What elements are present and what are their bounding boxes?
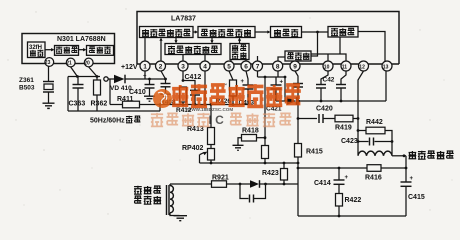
svg-text:B503: B503 [19, 85, 35, 92]
wire R416 right [381, 167, 406, 169]
wire line A [200, 162, 299, 164]
capacitor C363 [69, 77, 86, 112]
svg-text:+: + [241, 79, 245, 85]
svg-text:C420: C420 [316, 106, 333, 113]
svg-text:7: 7 [256, 64, 260, 71]
resistor R418 [238, 128, 265, 146]
capacitor C415 [401, 176, 425, 216]
wire C421 to diode [276, 100, 287, 102]
block: field output [328, 27, 358, 38]
node [405, 167, 408, 170]
diode pump [287, 97, 297, 105]
node [283, 162, 286, 165]
wire node to C412 [183, 81, 195, 91]
block: 32fH oscillator [28, 42, 46, 58]
wire pin2 up with arrow [159, 38, 162, 62]
wire pin6 down [246, 71, 248, 85]
wire pin6 up [245, 60, 247, 62]
wire pin7 stub up [257, 56, 259, 61]
wire pin4 up [204, 55, 206, 62]
svg-text:4: 4 [203, 64, 207, 71]
svg-text:9: 9 [293, 64, 297, 71]
block: field trigger input [140, 27, 194, 38]
damper diode [250, 180, 260, 188]
node [148, 78, 151, 81]
wire node down to pump [311, 32, 318, 56]
wire pin23 down [48, 66, 50, 81]
wire down to bottom rail [297, 163, 299, 216]
+12V terminal [104, 64, 138, 81]
wire pin8 up [278, 57, 285, 61]
wire C420 to R419 [323, 118, 335, 120]
block: field divider [87, 46, 114, 56]
svg-text:+12V: +12V [121, 64, 138, 71]
arrow counter to divider [79, 48, 87, 51]
resistor R921 [212, 175, 229, 188]
capacitor C422 [316, 71, 335, 101]
svg-text:C415: C415 [408, 194, 425, 201]
svg-text:3: 3 [181, 64, 185, 71]
node [340, 100, 343, 103]
capacitor C423 [341, 138, 392, 146]
node [96, 75, 99, 78]
svg-text:R422: R422 [345, 197, 362, 204]
wire pin3 up [182, 55, 184, 62]
capacitor C414 [314, 168, 349, 194]
line output transformer [134, 184, 179, 216]
arrow 32fH to counter [45, 48, 55, 51]
svg-text:R423: R423 [262, 170, 279, 177]
resistor R423 [262, 163, 288, 184]
watermark big characters [172, 84, 301, 106]
svg-text:13: 13 [383, 64, 389, 70]
svg-text:R442: R442 [366, 119, 383, 126]
wire pin7 down [257, 71, 259, 77]
node [297, 167, 300, 170]
deflection coil [358, 151, 454, 159]
svg-text:20: 20 [84, 61, 90, 67]
diode VD410 [110, 75, 132, 92]
wire resonator to ground [48, 92, 50, 103]
arrow trigger to sawtooth [193, 30, 198, 33]
label 50Hz/60Hz control [90, 116, 141, 125]
wire pin10 stub [327, 54, 329, 61]
wire y=77 [258, 76, 286, 78]
pin 4 [200, 61, 210, 71]
potentiometer RP402 [182, 145, 215, 163]
wire to R411 [110, 104, 123, 106]
svg-text:R416: R416 [365, 175, 382, 182]
ground below R418 [233, 145, 244, 150]
node [320, 100, 323, 103]
wire pin20 down to bus [89, 67, 97, 77]
resistor R426 [216, 80, 237, 105]
wire pin9 down [295, 71, 298, 83]
resistor R416 [365, 165, 382, 182]
svg-text:1: 1 [143, 64, 147, 71]
pin 5 [224, 61, 234, 71]
wire transformer to R921 [170, 183, 212, 185]
arrow sawtooth to drive [255, 30, 271, 33]
wire diode to R423 bottom [260, 183, 299, 185]
watermark logo disc [153, 89, 172, 108]
wire pin8 down [277, 71, 279, 77]
wire node to C420 [298, 118, 317, 120]
wire output to pin13 [358, 32, 385, 62]
wire pin13 down [385, 71, 387, 101]
node [264, 162, 267, 165]
wire bottom bus [68, 110, 160, 112]
node [204, 103, 207, 106]
svg-text:21: 21 [66, 61, 72, 67]
wire pin8 node down [284, 77, 286, 101]
svg-text:R921: R921 [212, 175, 229, 182]
svg-text:R418: R418 [242, 128, 259, 135]
svg-text:10: 10 [324, 64, 330, 70]
svg-text:C412: C412 [185, 74, 202, 81]
svg-text:8: 8 [276, 64, 280, 71]
node [338, 167, 341, 170]
wire R419 to pin12 line [353, 118, 358, 120]
resistor R422 [336, 194, 362, 217]
block: sawtooth generator [198, 27, 255, 38]
node [284, 76, 287, 79]
wire terminal to diode [108, 78, 114, 80]
wire right side up to rail [159, 105, 161, 112]
wire RP402 to line A [210, 160, 212, 163]
resistor R411 [117, 96, 140, 108]
node [391, 140, 394, 143]
svg-text:5: 5 [227, 64, 231, 71]
pin 21 [66, 58, 75, 67]
block: line counter [55, 46, 79, 56]
wire B rail [298, 167, 367, 169]
wire R921 to diode [227, 183, 251, 185]
wire pin5 down [229, 71, 233, 80]
ground below Z361 [43, 103, 55, 108]
node [159, 103, 162, 106]
block: monostable trigger [165, 44, 221, 55]
wire pin2 down [161, 71, 166, 79]
block: field drive [271, 27, 302, 38]
resistor R412 [160, 87, 192, 114]
node [239, 183, 242, 186]
wire pin21 down to bus [71, 67, 78, 77]
pin 6 [241, 61, 251, 71]
node [182, 103, 185, 106]
node [357, 129, 360, 132]
node [164, 78, 167, 81]
wire left side [67, 77, 69, 112]
wire diode out [297, 100, 387, 102]
svg-text:N301 LA7688N: N301 LA7688N [57, 36, 106, 43]
wire pin12 down to coil [358, 71, 364, 155]
wire rail to R413 [210, 105, 212, 128]
node [338, 215, 341, 218]
wire node down [297, 101, 299, 144]
resistor R442 [358, 119, 392, 155]
svg-text:+: + [345, 175, 349, 181]
svg-text:RP402: RP402 [182, 145, 204, 152]
svg-text:23: 23 [45, 60, 51, 66]
resistor R413 [187, 126, 215, 145]
wire output bottom to pin11 [311, 37, 346, 61]
svg-text:WWW.188DZSC.COM: WWW.188DZSC.COM [187, 107, 233, 112]
node [297, 162, 300, 165]
wire drive to output [302, 31, 329, 33]
wire pin1 down [144, 71, 146, 79]
capacitor C424 [336, 71, 346, 101]
wire top bus 50/60Hz [68, 76, 100, 78]
ground below C410 [144, 96, 155, 101]
resonator Z361 B503 [19, 77, 54, 92]
node [264, 136, 267, 139]
svg-text:R362: R362 [91, 101, 108, 108]
svg-text:11: 11 [342, 64, 348, 70]
svg-text:C423: C423 [341, 138, 358, 145]
wire pin3 down [182, 71, 184, 81]
resistor R415 [295, 144, 323, 158]
node [297, 100, 300, 103]
pin 23 [45, 58, 54, 67]
ground below transformer [174, 216, 188, 221]
node [210, 162, 213, 165]
node [194, 103, 197, 106]
node [232, 103, 235, 106]
snubber capacitor [240, 184, 266, 203]
block: field amp control [230, 44, 249, 60]
resistor R362 [91, 77, 108, 112]
IC N301 LA7688N outer box [22, 34, 115, 64]
ground below C411 [160, 94, 170, 99]
pin 9 [290, 61, 300, 71]
svg-text:2: 2 [159, 64, 163, 71]
watermark second line [151, 113, 292, 127]
pin 8 [273, 61, 283, 71]
wire coil to C415 top [405, 156, 407, 182]
node [316, 31, 319, 34]
capacitor C420 [316, 106, 333, 124]
resistor R417 [262, 146, 269, 164]
arrow amp control up to sawtooth [238, 38, 241, 44]
pin 20 [84, 58, 93, 67]
pin 2 [156, 61, 166, 71]
svg-text:C42: C42 [323, 77, 335, 84]
wire x=265 vertical [264, 77, 266, 146]
pin 10 [323, 61, 333, 71]
wire R413 to RP402 [210, 145, 212, 149]
svg-text:C363: C363 [69, 101, 86, 108]
pin 7 [253, 61, 263, 71]
svg-text:6: 6 [244, 64, 248, 71]
node [76, 75, 79, 78]
wire diode to node [125, 78, 166, 80]
pin 3 [178, 61, 188, 71]
capacitor C413 [239, 79, 255, 107]
node [182, 79, 185, 82]
svg-text:Z361: Z361 [19, 77, 34, 84]
svg-text:50Hz/60Hz: 50Hz/60Hz [90, 118, 125, 125]
capacitor C412 [185, 74, 202, 105]
node [357, 140, 360, 143]
wire bottom rail [298, 215, 406, 217]
svg-text:+: + [410, 176, 414, 182]
resistor R419 [335, 115, 353, 131]
block: pump power [285, 51, 311, 61]
capacitor C411 [161, 79, 171, 94]
wire 12V tap down [109, 79, 111, 105]
node [283, 183, 286, 186]
svg-text:R419: R419 [335, 125, 352, 132]
IC LA7837 outer box [137, 12, 399, 65]
svg-text:12: 12 [359, 64, 365, 70]
pin 11 [341, 61, 351, 71]
capacitor C421 [266, 77, 284, 113]
capacitor C410 [129, 74, 155, 97]
svg-text:I C: I C [209, 113, 225, 127]
wire pin5 up [230, 60, 232, 62]
pin 12 [359, 61, 369, 71]
arrow sawtooth down to monostable [210, 38, 213, 44]
svg-text:R415: R415 [306, 149, 323, 156]
rail wire [140, 104, 249, 106]
node [264, 76, 267, 79]
wire pin1 up [144, 38, 146, 62]
svg-text:LA7837: LA7837 [171, 16, 196, 23]
node [297, 117, 300, 120]
node [264, 183, 267, 186]
wire R415 to node [297, 157, 299, 163]
svg-text:R411: R411 [117, 96, 133, 103]
svg-text:+: + [143, 74, 147, 80]
capacitor C417 [293, 84, 303, 102]
pin 13 [382, 61, 392, 71]
arrow trigger down to monostable [174, 38, 177, 44]
wire pin4 down [204, 71, 206, 105]
svg-text:C414: C414 [314, 180, 331, 187]
node [210, 103, 213, 106]
node [357, 117, 360, 120]
node [403, 154, 406, 157]
pin 1 [140, 61, 150, 71]
